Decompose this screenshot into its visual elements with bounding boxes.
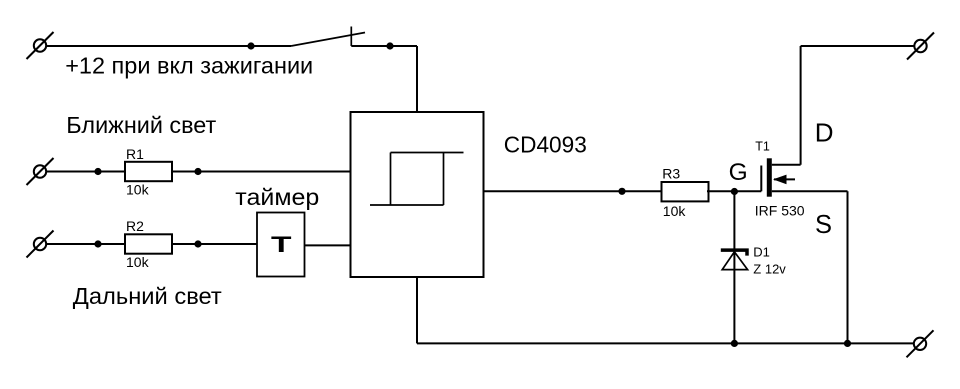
wire R1 to U1 [172,171,351,173]
svg-text:R1: R1 [126,146,144,162]
wire gate node down through D1 [733,192,735,344]
op-amp U1 CD4093 box [351,112,484,277]
wire bottom horizontal to terminal X5 [417,342,914,344]
wire U1 output to R3 [484,190,662,192]
wire drain vertical up [800,46,802,165]
node dot on output wire [618,188,625,195]
node dot after R1 [194,168,201,175]
wire from switch to corner [351,45,417,47]
svg-text:T1: T1 [755,139,770,153]
svg-text:Ближний свет: Ближний свет [66,112,216,138]
node dot bottom source branch [844,340,851,347]
transistor Q1 channel bar [767,158,772,196]
svg-text:R2: R2 [126,218,144,234]
switch S1 blade [291,33,365,47]
resistor R3 [662,182,709,201]
node dot after R2 [194,240,201,247]
svg-text:G: G [729,159,748,186]
wire U1 bottom down [416,277,418,343]
node G junction dot [731,188,738,195]
svg-text:10k: 10k [126,254,150,270]
wire R2 to timer T [172,243,258,245]
terminal X1 top-left [27,32,54,59]
svg-text:CD4093: CD4093 [504,132,587,158]
terminal X4 top-right [907,33,934,60]
svg-text:IRF 530: IRF 530 [755,202,805,218]
wire source vertical down [847,191,849,343]
svg-text:T: T [271,232,292,257]
svg-text:Дальний свет: Дальний свет [73,283,222,309]
switch S1 contact tick [350,27,352,47]
svg-text:таймер: таймер [235,184,319,210]
transistor Q1 gate electrode [760,166,762,192]
wire top from X1 to switch [46,45,291,47]
svg-text:S: S [815,211,832,239]
node junction dot before corner [386,42,393,49]
resistor R2 [125,234,172,253]
svg-text:Z 12v: Z 12v [753,261,786,276]
terminal X3 low-left [27,231,54,258]
wire down into U1 top [416,46,418,112]
transistor Q1 arrow [773,175,795,185]
wire timer to U1 [304,244,351,246]
wire X2 to R1 [46,171,125,173]
wire source horizontal [772,190,848,192]
wire X3 to R2 [46,243,125,245]
wire drain to terminal X4 [801,45,914,47]
svg-text:D: D [815,117,834,147]
zener diode D1 triangle [722,252,747,270]
node dot bottom D1 branch [731,340,738,347]
zener diode D1 cathode bar [721,250,747,256]
resistor R1 [125,162,172,181]
svg-text:R3: R3 [662,165,680,181]
terminal X2 mid-left [27,158,54,185]
wire drain horizontal [772,164,801,166]
svg-text:10k: 10k [126,181,150,197]
node dot before R1 [94,168,101,175]
node dot before R2 [94,240,101,247]
wire R3 to gate [707,190,761,192]
svg-text:10k: 10k [663,203,687,219]
node junction dot top wire [247,42,254,49]
timer box T [257,213,305,277]
terminal X5 bottom-right [907,330,934,357]
svg-text:+12 при вкл зажигании: +12 при вкл зажигании [65,53,313,79]
svg-text:D1: D1 [753,244,770,259]
schmitt trigger hysteresis symbol inside U1 [370,153,464,206]
